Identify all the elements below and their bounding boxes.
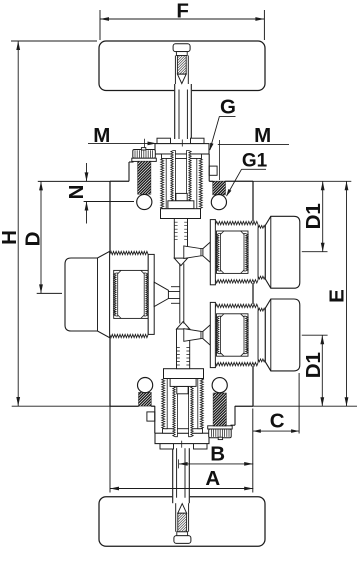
body bottom edge bbox=[110, 405, 139, 407]
bonnet neck bbox=[162, 154, 202, 159]
bleed ball bbox=[211, 195, 226, 210]
right fitting knurled nut bbox=[215, 221, 258, 283]
bonnet male thread left bbox=[161, 159, 167, 209]
svg-text:E: E bbox=[326, 289, 349, 303]
packing screw head knurl lines bbox=[135, 150, 153, 158]
handle screw S1 head bbox=[173, 44, 190, 52]
left fitting flange bbox=[148, 254, 154, 334]
right fitting neck bbox=[258, 225, 265, 279]
dim B bbox=[178, 459, 180, 468]
dim F bbox=[99, 10, 101, 40]
right fitting inner hex bbox=[217, 231, 249, 273]
svg-text:F: F bbox=[176, 0, 189, 23]
boss tab right (test port) bbox=[209, 166, 217, 175]
left port tube bbox=[171, 286, 180, 288]
central bore bbox=[179, 264, 181, 324]
bonnet flange tabs bbox=[157, 138, 171, 144]
needle tip bbox=[174, 258, 187, 265]
svg-text:D1: D1 bbox=[302, 352, 325, 378]
right port tube taper bbox=[184, 246, 201, 259]
dim D1 lower bbox=[302, 334, 328, 336]
stem thread right bbox=[187, 151, 192, 203]
stem head block bbox=[176, 193, 187, 200]
dim C bbox=[252, 409, 254, 493]
svg-text:M: M bbox=[93, 124, 110, 147]
svg-text:C: C bbox=[270, 410, 285, 433]
left fitting knurled nut bbox=[110, 251, 149, 337]
right port cone bbox=[203, 242, 210, 262]
dim N bbox=[38, 180, 110, 182]
needle stem bbox=[174, 219, 187, 259]
dim M right bbox=[218, 144, 289, 146]
svg-text:M: M bbox=[254, 124, 271, 147]
bonnet hex flange bbox=[155, 144, 209, 154]
body left edge bbox=[109, 181, 111, 251]
handle screw S1 washer bbox=[176, 52, 187, 56]
packing screw head bbox=[133, 150, 156, 159]
svg-text:B: B bbox=[210, 442, 225, 465]
gland flange block bbox=[161, 209, 201, 219]
svg-text:D1: D1 bbox=[302, 203, 325, 229]
svg-text:G1: G1 bbox=[242, 151, 268, 172]
left fitting nut body bbox=[65, 251, 110, 337]
dim D1 upper bbox=[253, 180, 351, 182]
dim H bbox=[11, 40, 97, 42]
body right edge bbox=[252, 181, 254, 221]
handle screw S1 counterbore bbox=[174, 56, 176, 85]
dim A bbox=[109, 403, 111, 493]
body boss left edge bbox=[128, 162, 130, 181]
svg-text:D: D bbox=[22, 232, 45, 247]
bonnet male thread right bbox=[197, 159, 203, 209]
left fitting cone bbox=[154, 282, 168, 306]
right fitting flange bbox=[210, 220, 215, 285]
label G bbox=[219, 115, 235, 117]
svg-text:A: A bbox=[205, 467, 220, 490]
packing screw washer bbox=[132, 158, 157, 161]
handle hub stem bbox=[174, 83, 192, 96]
handle screw S1 tip bbox=[177, 74, 186, 84]
right port neck bbox=[201, 249, 203, 256]
handle (top) bbox=[99, 41, 265, 91]
body top edge bbox=[110, 180, 129, 182]
dim M left bbox=[88, 142, 157, 144]
gland upper block bbox=[168, 201, 194, 209]
packing screw slot bbox=[141, 148, 145, 150]
right fitting end body bbox=[265, 216, 300, 288]
dim E bbox=[253, 405, 357, 407]
label G1 bbox=[242, 168, 267, 170]
svg-text:N: N bbox=[65, 185, 88, 200]
dim D bbox=[37, 292, 62, 294]
stem thread left bbox=[171, 151, 176, 203]
svg-text:H: H bbox=[0, 230, 21, 245]
packing ball bbox=[137, 194, 152, 209]
left fitting inner hex bbox=[114, 270, 149, 318]
svg-text:G: G bbox=[220, 96, 236, 119]
stem nut centerline tick bbox=[181, 140, 183, 147]
